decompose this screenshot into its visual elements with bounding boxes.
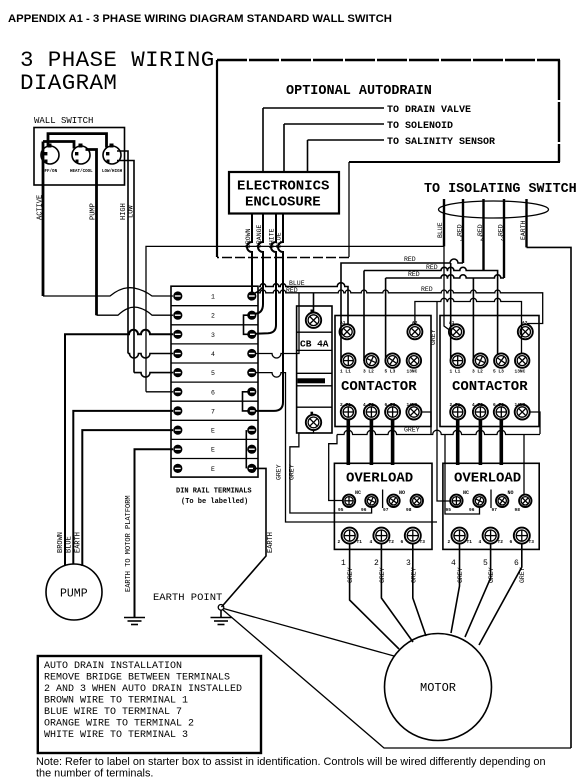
wire RED 2 to contactor L2 / L3 [364, 267, 498, 361]
svg-text:APPENDIX A1 - 3 PHASE WIRING D: APPENDIX A1 - 3 PHASE WIRING DIAGRAM STA… [8, 13, 392, 25]
wire: bus to S2 [43, 142, 74, 149]
svg-text:TO ISOLATING SWITCH: TO ISOLATING SWITCH [424, 182, 577, 197]
DIN rail row dividers [171, 306, 258, 459]
bridge terminals 2-3 [244, 315, 251, 334]
svg-text:Note: Refer to label on starte: Note: Refer to label on starter box to a… [36, 756, 546, 768]
overload 1 terminal 4T2 [370, 528, 395, 545]
wire motor lead 4 [451, 544, 460, 633]
control wire BLUE horizontal to CB and contactor 1 coil [259, 283, 348, 324]
wire: pump BLUE from terminal 7 [73, 411, 173, 564]
svg-text:T2: T2 [389, 539, 395, 545]
overload 2 terminal 4T2 [479, 528, 504, 545]
svg-text:6: 6 [401, 539, 404, 545]
wire motor lead 1 [350, 544, 399, 649]
svg-text:6 T3: 6 T3 [493, 402, 504, 408]
overload 1 terminal 6T3 [401, 528, 426, 545]
svg-text:the number of terminals.: the number of terminals. [36, 768, 153, 780]
wire red 3 from isolating switch [503, 199, 505, 278]
svg-text:GREY: GREY [519, 567, 526, 583]
switch S3 (LOW/HIGH) [102, 144, 123, 175]
svg-text:ORANGE: ORANGE [256, 224, 263, 248]
svg-text:WALL SWITCH: WALL SWITCH [34, 116, 93, 126]
svg-text:95: 95 [446, 507, 452, 513]
svg-text:4 T2: 4 T2 [363, 402, 374, 408]
svg-text:97: 97 [492, 507, 498, 513]
svg-text:3: 3 [211, 332, 215, 339]
svg-text:DIAGRAM: DIAGRAM [20, 70, 117, 96]
svg-text:ACTIVE: ACTIVE [37, 195, 45, 220]
svg-text:BLUE: BLUE [437, 222, 444, 238]
svg-text:OVERLOAD: OVERLOAD [454, 471, 521, 487]
svg-text:GREY: GREY [488, 567, 495, 583]
overload 1 terminal 2T1 [338, 528, 363, 545]
svg-text:TO SALINITY SENSOR: TO SALINITY SENSOR [387, 137, 495, 148]
wall switch box [34, 128, 125, 186]
svg-text:96: 96 [469, 507, 475, 513]
CB handle bar [298, 378, 326, 383]
contactor 1 coil A1 [340, 320, 355, 339]
bridge E terminals [245, 430, 247, 468]
contactor 1 terminal 4T2 [363, 402, 379, 420]
CB bottom terminal [306, 412, 321, 430]
wire BROWN from enclosure to terminal 1 (hops long wire) [247, 213, 252, 296]
svg-text:BROWN: BROWN [57, 532, 65, 553]
wire ORANGE from enclosure to terminal 2 [255, 213, 263, 314]
wire: terminal 5 grey down (hops) [256, 373, 437, 522]
svg-text:4: 4 [479, 539, 482, 545]
svg-text:6 T3: 6 T3 [385, 402, 396, 408]
overload 2 terminal 96 NC [463, 490, 486, 513]
overload 1 terminal 97 [383, 495, 400, 513]
svg-text:3: 3 [501, 236, 506, 244]
wire: L1 feed contactor 2 [450, 263, 452, 361]
wire RED 1 to contactor L1 terminals [341, 259, 463, 361]
wire: contactor 2 T3 to overload [499, 420, 503, 466]
wire BLUE from enclosure to terminal 7 [255, 213, 283, 411]
svg-text:TO SOLENOID: TO SOLENOID [387, 121, 453, 132]
svg-text:RED: RED [457, 224, 464, 236]
wire to drain valve with arrow [263, 108, 384, 172]
svg-text:E: E [211, 466, 215, 473]
svg-text:NC: NC [355, 490, 361, 496]
svg-text:A2: A2 [412, 320, 418, 326]
svg-text:OVERLOAD: OVERLOAD [346, 471, 413, 487]
svg-text:97: 97 [383, 507, 389, 513]
wire: contactor 1 A2 to overload 2 95 (grey) [437, 302, 450, 502]
contactor 2 terminal 3L2 [472, 353, 488, 374]
svg-text:TO DRAIN VALVE: TO DRAIN VALVE [387, 105, 471, 116]
svg-text:RED: RED [286, 287, 298, 294]
contactor 2 terminal 6T3 [493, 402, 509, 420]
svg-text:2 AND 3 WHEN AUTO DRAIN INSTAL: 2 AND 3 WHEN AUTO DRAIN INSTALLED [44, 684, 242, 695]
wire: HIGH into terminal 4 (hop) [128, 354, 173, 359]
contactor 1 box [335, 316, 431, 427]
motor circle [385, 634, 492, 741]
wire RED 3 to contactor L3 / L2 [386, 275, 504, 361]
svg-text:T3: T3 [529, 539, 535, 545]
wire: pump BROWN from terminal 3 (hops over HIGH/LOW/junction wires) [65, 330, 173, 566]
svg-text:GREY: GREY [411, 567, 418, 583]
contactor 2 terminal 5L3 [493, 353, 509, 374]
contactor 1 terminal 1L1 [340, 353, 355, 374]
svg-text:13NC: 13NC [515, 369, 526, 375]
svg-text:1: 1 [341, 559, 346, 568]
svg-text:4: 4 [370, 539, 373, 545]
wire: PUMP from S2 right side down [86, 150, 97, 316]
contactor 2 terminal 2T1 [450, 402, 466, 420]
wire: contactor 1 T2 to overload [370, 420, 374, 466]
svg-text:GREY: GREY [289, 464, 296, 480]
svg-text:BLUE WIRE TO TERMINAL 7: BLUE WIRE TO TERMINAL 7 [44, 707, 182, 718]
wire: earth to motor platform from terminal E9 [135, 449, 174, 617]
svg-text:A1: A1 [340, 320, 346, 326]
switch S2 (HEAT/COOL) [70, 144, 93, 175]
wire WHITE from enclosure to terminal 3 [255, 213, 276, 334]
svg-text:NC: NC [463, 490, 469, 496]
contactor 2 terminal 14NC [515, 402, 530, 420]
overload 1 box [334, 463, 432, 549]
wire: CB feed tap [313, 293, 315, 313]
svg-text:BROWN WIRE TO TERMINAL 1: BROWN WIRE TO TERMINAL 1 [44, 696, 188, 707]
svg-text:HEAT/COOL: HEAT/COOL [70, 169, 93, 174]
svg-text:BLUE: BLUE [66, 536, 74, 553]
svg-text:OPTIONAL AUTODRAIN: OPTIONAL AUTODRAIN [286, 84, 432, 99]
earth point [153, 592, 232, 625]
svg-text:CONTACTOR: CONTACTOR [452, 379, 528, 395]
svg-text:1 L1: 1 L1 [340, 369, 351, 375]
wire motor lead 6 [479, 544, 522, 645]
svg-text:BLUE: BLUE [276, 232, 283, 248]
svg-text:3 L2: 3 L2 [472, 369, 483, 375]
svg-text:2: 2 [448, 539, 451, 545]
svg-text:3 L2: 3 L2 [363, 369, 374, 375]
wire: 14NC stub contactor 2 [530, 412, 540, 434]
svg-text:BLUE: BLUE [289, 280, 305, 287]
svg-text:A2: A2 [522, 320, 528, 326]
svg-text:2: 2 [374, 559, 379, 568]
overload 1 terminal 95 [338, 495, 355, 513]
svg-text:6: 6 [514, 559, 519, 568]
contactor 1 terminal 5L3 [385, 353, 400, 374]
svg-text:2 T1: 2 T1 [450, 402, 461, 408]
svg-text:1: 1 [211, 294, 215, 301]
svg-text:4: 4 [451, 559, 456, 568]
svg-text:98: 98 [515, 507, 521, 513]
control wire RED horizontal to contactor 2 coil A2 [257, 290, 543, 324]
overload 1 terminal 96 NC [355, 490, 378, 513]
overload 1 terminal 98 NO [399, 490, 423, 513]
contactor 2 terminal 4T2 [472, 402, 488, 420]
wire: E terminal 10 to earth point [222, 468, 267, 607]
svg-text:LOW: LOW [128, 205, 136, 218]
wire: switch top bus S1 to S3 [48, 134, 107, 148]
DIN rail terminal strip box [171, 286, 258, 477]
overload 2 box [443, 463, 539, 549]
wire: overload 2 96 up to NC line [445, 434, 480, 514]
wire EARTH from isolating switch to right border [525, 199, 527, 247]
svg-text:AUTO DRAIN INSTALLATION: AUTO DRAIN INSTALLATION [44, 661, 182, 672]
wire red 1 from isolating switch [462, 199, 464, 263]
svg-text:EARTH: EARTH [75, 532, 83, 553]
svg-text:MOTOR: MOTOR [420, 681, 456, 695]
wire: HIGH from S3 down [117, 151, 128, 354]
contactor 2 coil A2 [518, 320, 533, 339]
svg-text:CB 4A: CB 4A [300, 339, 329, 350]
overload 2 terminal 95 [446, 495, 463, 513]
svg-text:RED: RED [498, 224, 505, 236]
svg-text:3: 3 [406, 559, 411, 568]
ground symbol motor platform [124, 618, 145, 625]
long wire from isolating switch BLUE to junction column [146, 246, 444, 391]
svg-text:95: 95 [338, 507, 344, 513]
wire: junction column into terminal 6 [146, 391, 173, 393]
svg-text:2 T1: 2 T1 [340, 402, 351, 408]
svg-text:6: 6 [211, 389, 215, 396]
svg-text:T2: T2 [498, 539, 504, 545]
wire: blue feed contactor 2 A1 [444, 246, 450, 330]
overload 2 terminal 2T1 [448, 528, 473, 545]
svg-text:REMOVE BRIDGE BETWEEN TERMINAL: REMOVE BRIDGE BETWEEN TERMINALS [44, 673, 230, 684]
wire: earth point to motor frame [224, 609, 395, 657]
svg-text:1 L1: 1 L1 [450, 369, 461, 375]
contactor 1 coil A2 [407, 320, 422, 339]
svg-text:BROWN: BROWN [245, 228, 252, 248]
overload 2 terminal 6T3 [510, 528, 535, 545]
wire motor lead 3 [413, 544, 426, 636]
svg-text:4 T2: 4 T2 [472, 402, 483, 408]
svg-text:2: 2 [211, 313, 215, 320]
svg-text:EARTH: EARTH [267, 532, 275, 553]
contactor 1 terminal 14NC [406, 402, 421, 420]
wire: PUMP into terminal 2 (hop) [97, 307, 174, 315]
contactor 1 terminal 6T3 [385, 402, 401, 420]
wire: CB bottom to overload 1 96 [290, 430, 372, 513]
wire: contactor 2 T2 to overload [479, 420, 483, 466]
svg-text:GREY: GREY [276, 464, 283, 480]
contactor 1 terminal 2T1 [340, 402, 356, 420]
wire to solenoid with arrow [284, 124, 384, 172]
overload 2 terminal 97 [492, 495, 509, 513]
contactor 2 box [440, 316, 539, 427]
svg-text:4: 4 [211, 351, 215, 358]
svg-text:RED: RED [421, 286, 433, 293]
svg-text:NO: NO [399, 490, 405, 496]
svg-text:1: 1 [460, 236, 465, 244]
contactor 2 coil A1 [449, 320, 464, 339]
svg-text:5: 5 [483, 559, 488, 568]
svg-text:5: 5 [211, 370, 215, 377]
svg-text:LOW/HIGH: LOW/HIGH [102, 169, 123, 174]
svg-text:7: 7 [211, 408, 215, 415]
wire: contactor 2 T1 to overload [456, 420, 460, 466]
electronics enclosure box [229, 172, 339, 214]
svg-text:PUMP: PUMP [90, 203, 98, 220]
svg-text:5 L3: 5 L3 [493, 369, 504, 375]
svg-text:E: E [211, 447, 215, 454]
svg-text:96: 96 [361, 507, 367, 513]
switch S1 (OFF/ON) [41, 144, 59, 175]
contactor 2 terminal 13NC [515, 353, 530, 374]
overload 2 terminal 98 NO [508, 490, 532, 513]
svg-text:A1: A1 [449, 320, 455, 326]
svg-text:GREY: GREY [404, 427, 420, 434]
svg-text:14NC: 14NC [407, 402, 418, 408]
CB top terminal [306, 310, 321, 328]
svg-text:13NC: 13NC [407, 369, 418, 375]
wire: ACTIVE down from S1 [42, 142, 45, 297]
circuit breaker CB 4A box [297, 306, 332, 433]
wire: terminal 1 up to control feed lines [253, 288, 262, 295]
svg-text:EARTH TO MOTOR PLATFORM: EARTH TO MOTOR PLATFORM [125, 495, 133, 592]
optional autodrain enclosure boundary (dashed box) [217, 60, 560, 258]
wire: contactor 1 T3 to overload [391, 420, 395, 466]
wire: LOW into terminal 5 (hop) [134, 373, 173, 377]
svg-text:ELECTRONICS: ELECTRONICS [237, 179, 329, 195]
svg-text:EARTH POINT: EARTH POINT [153, 592, 222, 604]
svg-text:DIN RAIL TERMINALS: DIN RAIL TERMINALS [176, 488, 252, 496]
svg-text:ORANGE WIRE TO TERMINAL 2: ORANGE WIRE TO TERMINAL 2 [44, 719, 194, 730]
wire motor lead 2 [381, 544, 413, 642]
svg-text:RED: RED [404, 256, 416, 263]
svg-text:T1: T1 [357, 539, 363, 545]
wire blue to isolating switch [443, 199, 445, 246]
wire: 14NC stub contactor 1 [421, 412, 431, 434]
svg-text:T1: T1 [467, 539, 473, 545]
svg-text:RED: RED [477, 224, 484, 236]
auto drain installation text box [38, 656, 261, 753]
wire: NC interlock line 13NC [415, 298, 522, 353]
grey NC hop line to overloads [329, 430, 540, 500]
svg-text:WHITE WIRE TO TERMINAL 3: WHITE WIRE TO TERMINAL 3 [44, 730, 188, 741]
svg-text:5 L3: 5 L3 [385, 369, 396, 375]
wire to salinity sensor with arrow [308, 140, 385, 172]
svg-text:T3: T3 [420, 539, 426, 545]
svg-text:CONTACTOR: CONTACTOR [341, 379, 417, 395]
separator tick overload 2 [490, 490, 492, 509]
svg-text:WHITE: WHITE [269, 228, 276, 248]
wire motor lead 5 [465, 544, 491, 637]
svg-text:GREY: GREY [347, 567, 354, 583]
wire: earth point to bottom right border [223, 610, 572, 749]
svg-text:2: 2 [480, 236, 485, 244]
pump circle [46, 564, 102, 620]
isolating switch cable ellipse [439, 201, 549, 218]
contactor 2 terminal 1L1 [450, 353, 465, 374]
svg-text:GREY: GREY [379, 567, 386, 583]
svg-text:(To be labelled): (To be labelled) [181, 498, 248, 506]
svg-text:14NC: 14NC [515, 402, 526, 408]
wire: terminal 4 up to red control line [256, 293, 299, 358]
svg-text:EARTH: EARTH [520, 220, 527, 240]
contactor 1 terminal 3L2 [363, 353, 379, 374]
wire: pump EARTH from terminal E8 [82, 430, 173, 566]
svg-text:RED: RED [408, 271, 420, 278]
svg-text:PUMP: PUMP [60, 588, 88, 601]
bridge terminals 6-7 [243, 392, 251, 411]
svg-text:98: 98 [406, 507, 412, 513]
contactor 1 terminal 13NC [407, 353, 422, 374]
terminal screws and numbers [173, 291, 256, 473]
svg-text:ENCLOSURE: ENCLOSURE [245, 195, 321, 211]
svg-text:GREY: GREY [430, 329, 437, 345]
wire: ACTIVE into terminal 1 (hop over channel) [43, 288, 173, 296]
svg-text:NO: NO [508, 490, 514, 496]
wire red 2 from isolating switch [482, 199, 484, 271]
wire: LOW from S3 down [117, 161, 134, 373]
svg-text:RED: RED [426, 264, 438, 271]
svg-text:2: 2 [338, 539, 341, 545]
svg-text:E: E [211, 428, 215, 435]
svg-text:GREY: GREY [457, 567, 464, 583]
wire: contactor 1 T1 to overload [346, 420, 350, 466]
svg-text:6: 6 [510, 539, 513, 545]
separator tick overload 1 [382, 490, 384, 509]
